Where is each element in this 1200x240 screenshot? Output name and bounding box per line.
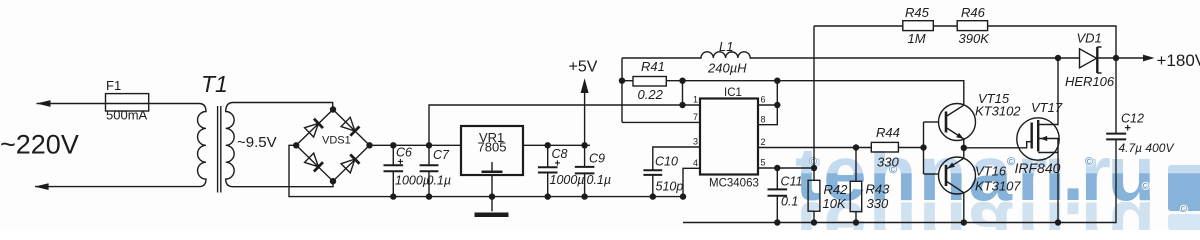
svg-text:R45: R45	[905, 5, 930, 20]
svg-text:1: 1	[693, 95, 698, 105]
svg-text:500mA: 500mA	[106, 108, 148, 123]
svg-text:R41: R41	[641, 59, 665, 74]
svg-text:©: ©	[1179, 203, 1187, 215]
svg-text:T1: T1	[201, 71, 228, 97]
svg-text:KT3107: KT3107	[975, 179, 1021, 194]
svg-text:~220V: ~220V	[0, 130, 79, 160]
svg-text:4: 4	[693, 158, 698, 168]
svg-text:C10: C10	[655, 155, 678, 169]
svg-text:0.22: 0.22	[638, 87, 664, 102]
svg-text:R43: R43	[866, 182, 891, 197]
svg-text:240µH: 240µH	[707, 61, 747, 76]
svg-text:1000µ: 1000µ	[395, 174, 430, 188]
svg-text:510p: 510p	[656, 180, 684, 194]
svg-text:+: +	[555, 159, 561, 170]
svg-text:C11: C11	[781, 175, 803, 189]
svg-text:VDS1: VDS1	[322, 135, 351, 147]
svg-text:©: ©	[1141, 180, 1149, 192]
svg-text:2: 2	[761, 137, 766, 147]
svg-text:7: 7	[693, 112, 698, 122]
svg-text:KT3102: KT3102	[975, 104, 1021, 119]
svg-text:VT16: VT16	[975, 164, 1007, 179]
svg-text:8: 8	[761, 114, 766, 124]
svg-text:0.1µ: 0.1µ	[427, 174, 452, 188]
svg-text:~9.5V: ~9.5V	[237, 134, 277, 151]
svg-text:+: +	[398, 157, 404, 168]
svg-text:R42: R42	[824, 182, 849, 197]
svg-text:+180V: +180V	[1157, 51, 1200, 70]
svg-text:10K: 10K	[823, 196, 847, 211]
svg-text:IRF840: IRF840	[1015, 160, 1061, 176]
svg-text:330: 330	[877, 155, 899, 170]
svg-text:1M: 1M	[908, 31, 926, 46]
svg-text:390K: 390K	[959, 31, 991, 46]
svg-text:330: 330	[867, 196, 889, 211]
svg-text:C9: C9	[589, 152, 605, 166]
svg-text:HER106: HER106	[1065, 74, 1115, 89]
svg-text:L1: L1	[719, 39, 733, 54]
svg-text:R44: R44	[876, 125, 900, 140]
svg-text:1000µ: 1000µ	[550, 173, 585, 187]
svg-text:3: 3	[693, 137, 698, 147]
svg-text:+5V: +5V	[569, 59, 598, 76]
svg-text:IC1: IC1	[724, 87, 742, 99]
svg-text:VD1: VD1	[1077, 31, 1102, 46]
svg-text:7805: 7805	[478, 140, 507, 155]
svg-text:VT17: VT17	[1031, 100, 1063, 115]
svg-text:©: ©	[1085, 156, 1093, 168]
svg-text:R46: R46	[961, 5, 986, 20]
svg-text:+: +	[1125, 123, 1131, 135]
svg-text:4.7µ 400V: 4.7µ 400V	[1119, 141, 1175, 155]
svg-text:0.1: 0.1	[781, 195, 798, 209]
svg-text:MC34063: MC34063	[709, 178, 759, 190]
svg-text:0.1µ: 0.1µ	[587, 173, 612, 187]
svg-text:C7: C7	[433, 148, 450, 162]
svg-text:F1: F1	[106, 78, 121, 93]
svg-text:6: 6	[761, 95, 766, 105]
svg-text:5: 5	[761, 158, 766, 168]
